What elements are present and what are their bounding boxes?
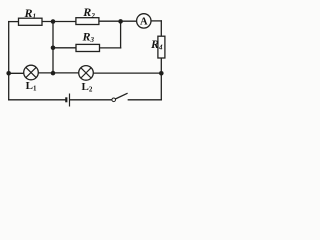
- lamp L2: [79, 66, 94, 94]
- wire: ammeter right to top-right corner: [151, 20, 161, 22]
- wire: R3 riser up to top rail: [120, 21, 122, 48]
- wire: right rail, corner down to R4 top: [160, 21, 162, 36]
- svg-text:L2: L2: [82, 81, 93, 93]
- wire: R2 right to ammeter left (through node at x=120.6): [99, 20, 137, 22]
- wire: lamp row, left rail to L1: [9, 72, 24, 74]
- wire: R3 left lead: [53, 47, 76, 49]
- node: junction middle column / lamp row: [51, 71, 56, 76]
- node: junction middle column / R3 left lead: [51, 46, 56, 51]
- wire: right rail, R4 bottom to bottom-right corner: [160, 58, 162, 100]
- wire: left rail: [8, 22, 10, 100]
- node: junction right rail / lamp row: [159, 71, 164, 76]
- node: junction top rail / middle column: [51, 19, 56, 24]
- resistor R2: [76, 5, 99, 24]
- node: junction left rail / lamp row: [6, 71, 11, 76]
- battery (long thin positive plate): [69, 94, 71, 107]
- wire: bottom rail, switch to bottom-right corner: [128, 99, 161, 101]
- svg-text:R1: R1: [24, 6, 37, 21]
- svg-text:R3: R3: [82, 30, 95, 45]
- wire: bottom rail, battery to switch: [70, 99, 112, 101]
- wire: lamp row, L2 to right rail: [93, 72, 161, 74]
- wire: lamp row, L1 to L2 (through node at x=53): [38, 72, 78, 74]
- wire: bottom rail, left corner to battery: [9, 99, 66, 101]
- wire: R1 right to R2 left (through node at x=53): [42, 21, 76, 23]
- svg-text:A: A: [140, 17, 148, 28]
- svg-text:L1: L1: [26, 80, 37, 92]
- svg-text:R2: R2: [82, 5, 95, 20]
- resistor R1: [19, 6, 43, 25]
- battery (short thick negative plate): [65, 97, 67, 102]
- lamp L1: [24, 65, 39, 92]
- wire: middle column node A down to lamp row: [52, 22, 54, 74]
- switch S (open knife switch): [112, 93, 128, 101]
- resistor R4: [150, 36, 165, 58]
- ammeter A: [137, 14, 151, 28]
- node: junction top rail / R3 riser: [118, 19, 123, 24]
- wire: R3 right lead: [100, 47, 121, 49]
- resistor R3: [76, 30, 100, 52]
- wire: top rail, left rail segment to R1: [9, 21, 19, 23]
